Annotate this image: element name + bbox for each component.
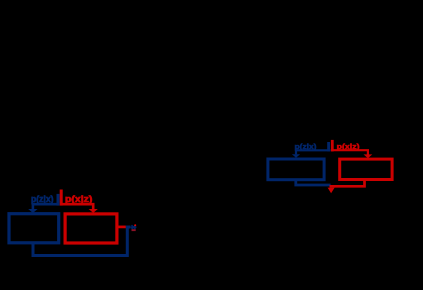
wire: E2 bottom output path xyxy=(296,181,331,186)
block E2 (blue box, right diagram) xyxy=(268,159,324,180)
wire: red input stem (right diagram) xyxy=(331,140,334,152)
wire: D2 bottom output path xyxy=(330,181,365,187)
block E1 (blue box, left diagram) xyxy=(9,214,59,243)
svg-text:p(z|x): p(z|x) xyxy=(31,194,54,204)
block D1 (red box, left diagram) xyxy=(65,214,117,243)
wire: arrow into E2 top xyxy=(292,150,331,158)
wire: D1 output stub xyxy=(117,226,126,229)
label E1 xyxy=(31,194,54,204)
wire: arrow into D2 top xyxy=(331,150,372,158)
wire: feedback loop to E1 bottom xyxy=(33,227,130,256)
node: output symbol xyxy=(131,224,137,231)
label D2 xyxy=(337,142,360,151)
wire: blue input stem (right diagram) xyxy=(327,142,330,151)
node: merged output arrowhead xyxy=(328,188,335,194)
wire: arrow into D1 top xyxy=(61,204,98,213)
wire: arrow into E1 top xyxy=(28,204,59,213)
wire: blue input stem (left diagram) xyxy=(57,194,60,206)
label E2 xyxy=(295,142,318,151)
label D1 xyxy=(65,194,92,204)
block D2 (red box, right diagram) xyxy=(340,159,392,179)
svg-text:p(x|z): p(x|z) xyxy=(65,194,92,204)
wire: red input stem (left diagram) xyxy=(60,190,63,206)
